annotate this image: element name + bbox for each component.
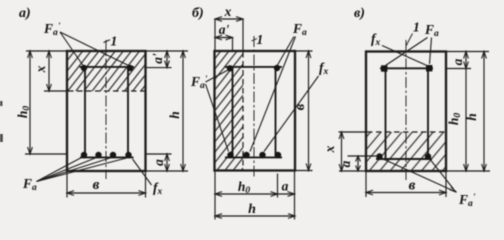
- svg-text:h: h: [464, 113, 479, 121]
- centerline 1-1 section v: [405, 40, 407, 180]
- top rebar dots (b): [227, 65, 233, 71]
- svg-text:a: a: [282, 179, 289, 194]
- svg-text:a': a': [219, 22, 230, 37]
- dimension a top-right + h0 (v): [465, 52, 467, 172]
- top extension line left (a): [26, 50, 67, 52]
- bottom-left extension (v): [339, 170, 366, 172]
- dimension a left (v): [357, 156, 359, 171]
- centerline 1-1 section b: [253, 36, 255, 177]
- svg-text:x: x: [33, 65, 48, 73]
- leader Fa to tension bars (b): [278, 37, 295, 66]
- stirrup section v: [380, 67, 433, 69]
- top rebar squares (v): [381, 65, 387, 71]
- svg-text:в: в: [409, 178, 416, 194]
- leader fx to stirrup (a): [133, 159, 152, 185]
- centerline label 1 (v): [406, 34, 413, 47]
- compression hatch zone v (bottom band): [367, 132, 445, 170]
- leader Fa-prime arrows (v): [382, 159, 456, 193]
- dimension a-prime (a): [166, 51, 168, 68]
- centerline label 1 (b): [252, 39, 258, 42]
- compression hatch zone a: [68, 52, 145, 91]
- dimension a bottom (b): [278, 193, 295, 195]
- svg-text:h: h: [248, 202, 256, 217]
- dimension b width (a): [67, 192, 146, 194]
- dimension h (b): [215, 215, 295, 217]
- svg-text:в: в: [93, 177, 100, 193]
- stirrup section a: [80, 66, 135, 68]
- scan edge mark 2: [0, 134, 3, 142]
- leader Fa-prime to top dots (a): [60, 32, 83, 66]
- leader Fa to top bars (v): [386, 38, 428, 66]
- neutral axis dashed line a: [68, 90, 145, 92]
- svg-text:1: 1: [413, 20, 420, 35]
- svg-text:a': a': [150, 53, 165, 64]
- extension lines right (v): [446, 51, 489, 53]
- dimension h (a): [182, 51, 184, 171]
- leader fx to bottom dots (b): [264, 76, 319, 152]
- svg-text:a: a: [151, 159, 166, 166]
- dimension x (v): [341, 132, 343, 171]
- beam outline section b: [215, 51, 296, 171]
- bottom rebar Fa dots (a): [81, 152, 87, 158]
- neutral axis dashed line v: [367, 131, 445, 133]
- scan edge mark 1: [0, 101, 2, 106]
- svg-text:1: 1: [111, 34, 118, 49]
- dimension x (a): [48, 51, 50, 91]
- beam outline section v: [366, 52, 446, 172]
- svg-text:a: a: [338, 160, 353, 167]
- svg-text:б): б): [192, 6, 204, 21]
- dimension h0 (a): [29, 51, 31, 154]
- dimension a-prime (b): [215, 37, 233, 39]
- top rebar Fa-prime dots (a): [81, 65, 87, 71]
- top extension line right (a): [146, 50, 189, 52]
- bottom rebar dots (b): [227, 152, 233, 158]
- svg-text:a: a: [450, 58, 465, 65]
- neutral axis dashed line b: [242, 52, 244, 170]
- dimension x (b): [215, 18, 243, 20]
- extension lines below (b): [214, 171, 216, 220]
- svg-text:в): в): [354, 6, 365, 21]
- leader Fa-prime to left dots (b): [206, 70, 229, 82]
- stirrup section b: [225, 66, 282, 68]
- dimension h (v): [483, 52, 485, 172]
- svg-text:а): а): [19, 6, 31, 21]
- centerline label 1 (a): [104, 40, 111, 43]
- centerline 1-1 section a: [105, 40, 107, 179]
- svg-text:h: h: [167, 111, 182, 119]
- bottom rebar dots (v): [376, 153, 382, 159]
- dimension b-height right (b): [308, 51, 310, 171]
- dimension a (a): [166, 154, 168, 171]
- beam outline section a: [67, 51, 146, 171]
- leader fx to right bar (v): [382, 46, 428, 67]
- dimension b width (v): [366, 192, 446, 194]
- dimension h0 (b): [215, 193, 278, 195]
- svg-text:1: 1: [257, 32, 264, 47]
- svg-text:x: x: [224, 4, 232, 19]
- compression hatch zone b (left strip): [215, 52, 243, 170]
- leader Fa to bottom dots (a): [37, 158, 82, 182]
- svg-text:x: x: [322, 145, 337, 153]
